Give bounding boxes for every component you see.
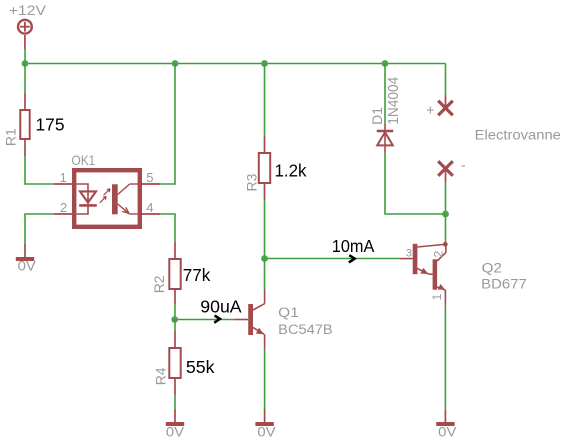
svg-text:10mA: 10mA [332,236,375,256]
ground 0V at R4 [166,409,184,424]
junction base node [171,316,178,323]
junction at +12V column [22,60,29,67]
ground 0V at Q1 [255,409,273,424]
wire R1 to OK1 pin1 [25,156,54,184]
wire collector node down to Q1 collector [264,259,266,290]
svg-text:0V: 0V [438,425,457,440]
current arrow 10mA [349,255,355,262]
svg-text:55k: 55k [186,357,215,377]
wire base node to R4 [174,320,176,332]
svg-text:1.2k: 1.2k [275,160,307,180]
OK1 pin 1 [54,183,72,185]
diode D1 [377,124,393,153]
wire collector node to Q2 base [265,258,401,260]
wire R4 to ground [174,395,176,409]
supply +12V symbol [18,20,32,49]
svg-text:1: 1 [430,294,444,301]
resistor R2 [169,242,180,304]
svg-text:OK1: OK1 [72,152,96,168]
wire rail to D1 [384,64,386,125]
svg-text:175: 175 [36,114,65,134]
wire Q1 emitter to ground [264,349,266,409]
OK1 phototransistor [112,184,142,214]
transistor Q2 darlington [400,242,448,305]
wire OK1 pin5 to top rail [160,64,175,185]
svg-text:0V: 0V [166,425,185,440]
wire R2 to base node [174,304,176,320]
svg-text:+12V: +12V [9,3,46,18]
svg-text:4: 4 [146,200,153,215]
svg-text:5: 5 [146,170,153,185]
svg-text:90uA: 90uA [200,296,242,316]
resistor R4 [169,331,180,395]
resistor R3 [259,136,270,200]
wire OK1 pin2 to ground [25,214,54,244]
OK1 LED light arrows [100,189,110,203]
svg-text:+: + [426,102,434,118]
svg-text:Electrovanne: Electrovanne [475,126,562,142]
svg-text:2: 2 [60,200,67,215]
transistor Q1 [235,289,265,349]
svg-text:R1: R1 [2,128,18,146]
optocoupler OK1 box [74,170,140,227]
wire +12V to top rail [24,49,26,64]
svg-text:Q2: Q2 [482,260,502,275]
wire rail to + terminal [445,64,447,96]
OK1 LED [77,184,97,214]
wire rail to R1 [24,64,26,94]
connector terminal X1 + [438,95,453,115]
junction at OK1 column [172,60,179,67]
svg-text:Q1: Q1 [278,305,299,320]
svg-text:3: 3 [406,247,412,259]
junction Q2 collector node [442,211,449,218]
junction at R3 column [261,60,268,67]
OK1 pin 5 [142,183,160,185]
ground 0V at OK1 [16,244,34,259]
wire D1 to Q2 collector node [385,153,446,214]
wire - terminal to Q2 collector node [445,182,447,214]
svg-text:0V: 0V [257,425,276,440]
resistor R1 [20,93,29,156]
junction collector node [261,255,268,262]
wire rail to R3 [264,64,266,137]
svg-text:D1: D1 [369,107,385,125]
svg-text:0V: 0V [18,259,37,274]
ground 0V at Q2 [436,410,454,424]
wire base node to Q1 base [175,319,235,321]
svg-text:BD677: BD677 [481,277,527,292]
svg-text:BC547B: BC547B [278,322,333,337]
top rail wire [25,63,446,65]
OK1 pin 2 [54,213,72,215]
svg-text:R3: R3 [243,173,259,191]
wire node to Q2 collector [445,214,447,243]
svg-text:R2: R2 [151,275,167,293]
svg-text:R4: R4 [153,367,169,385]
wire R3 to collector node [264,200,266,259]
svg-text:1N4004: 1N4004 [385,77,402,125]
wire OK1 pin4 to R2 [160,214,175,242]
svg-text:77k: 77k [183,265,211,285]
junction at D1 column [382,60,389,67]
wire Q2 emitter to ground [444,305,446,410]
svg-text:1: 1 [60,170,67,185]
svg-text:-: - [461,157,466,173]
svg-text:2: 2 [431,251,445,258]
OK1 pin 4 [142,213,160,215]
connector terminal X2 - [438,161,453,182]
current arrow 90uA [214,316,220,323]
